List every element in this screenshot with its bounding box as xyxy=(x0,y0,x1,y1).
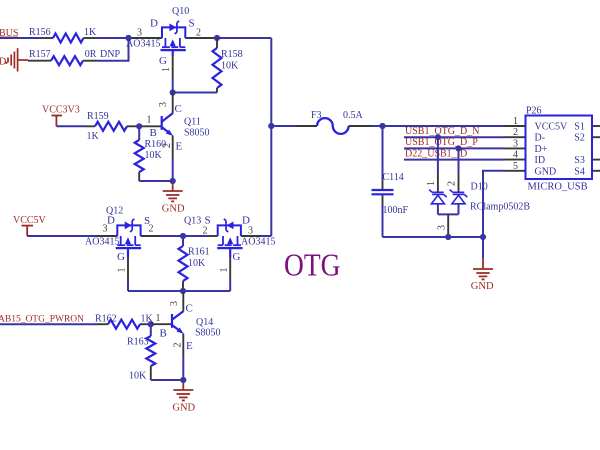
svg-text:D10: D10 xyxy=(471,182,488,193)
transistor Q11 S8050 xyxy=(142,93,210,159)
svg-text:B: B xyxy=(150,127,157,139)
wire Q13 gate down xyxy=(229,248,231,257)
junction node base/R163 xyxy=(148,321,154,327)
wire Q12 S to Q13 S xyxy=(161,235,208,237)
wire VCC5V to Q12 D xyxy=(27,235,97,237)
svg-text:S8050: S8050 xyxy=(195,328,221,339)
svg-text:R156: R156 xyxy=(29,27,51,38)
svg-text:1: 1 xyxy=(219,268,230,273)
svg-text:2: 2 xyxy=(149,224,154,235)
wire right vertical x=271 xyxy=(270,38,272,236)
fuse F3 0.5A xyxy=(271,110,371,134)
svg-text:Q11: Q11 xyxy=(184,117,201,128)
wire Q14 emitter down xyxy=(182,356,184,380)
svg-text:G: G xyxy=(117,251,125,263)
TVS diode 1 xyxy=(429,190,447,204)
svg-text:B: B xyxy=(160,328,167,340)
junction node gates/Q14 collector xyxy=(180,288,186,294)
svg-text:0.5A: 0.5A xyxy=(343,110,364,121)
wire/pin Q10 gate down xyxy=(172,50,174,56)
junction node base/R160 xyxy=(136,123,142,129)
junction node tap/rail xyxy=(445,234,451,240)
svg-text:C: C xyxy=(186,303,193,315)
connector P26 MICRO_USB xyxy=(505,106,600,193)
svg-text:3: 3 xyxy=(158,102,169,107)
pin 5 xyxy=(505,170,526,172)
svg-text:R162: R162 xyxy=(95,314,117,325)
svg-text:OTG: OTG xyxy=(284,248,341,283)
wire diode2 top xyxy=(458,148,460,172)
svg-text:AO3415: AO3415 xyxy=(241,237,275,248)
junction node emitter/GND xyxy=(180,377,186,383)
svg-text:D+: D+ xyxy=(535,144,548,155)
svg-text:MICRO_USB: MICRO_USB xyxy=(528,182,588,193)
ground port left (rotated) xyxy=(0,48,28,71)
svg-text:C114: C114 xyxy=(383,172,404,183)
svg-text:D: D xyxy=(150,18,158,30)
pin S1 xyxy=(592,125,600,127)
svg-text:GND: GND xyxy=(471,281,494,292)
resistor R160 xyxy=(135,126,166,181)
svg-text:S8050: S8050 xyxy=(184,128,210,139)
junction node C114 branch xyxy=(379,123,385,129)
pin S2 xyxy=(592,136,600,138)
svg-text:2: 2 xyxy=(447,181,458,186)
svg-text:2: 2 xyxy=(513,127,518,138)
svg-text:S3: S3 xyxy=(574,155,585,166)
svg-text:1: 1 xyxy=(161,67,172,72)
svg-text:10K: 10K xyxy=(129,371,147,382)
svg-text:GND: GND xyxy=(172,402,195,413)
svg-text:4: 4 xyxy=(513,150,518,161)
svg-text:VCC5V: VCC5V xyxy=(13,215,47,226)
body diode of Q13 xyxy=(227,222,234,230)
svg-text:DNP: DNP xyxy=(100,49,120,60)
wire F3 to P26 pin1 xyxy=(371,125,505,127)
svg-text:AB15_OTG_PWRON: AB15_OTG_PWRON xyxy=(0,314,84,324)
resistor R158 xyxy=(213,38,243,93)
svg-text:3: 3 xyxy=(169,301,180,306)
svg-text:1: 1 xyxy=(147,115,152,126)
svg-text:5: 5 xyxy=(513,161,518,172)
wire Q10 S to corner xyxy=(215,37,271,39)
connector body xyxy=(526,116,593,180)
pin 2 xyxy=(505,136,526,138)
svg-text:AO3415: AO3415 xyxy=(126,39,160,50)
svg-text:10K: 10K xyxy=(221,61,239,72)
svg-text:S2: S2 xyxy=(574,133,585,144)
svg-text:C: C xyxy=(175,103,182,115)
wire Q12 gate down xyxy=(127,248,129,257)
svg-text:1K: 1K xyxy=(87,131,100,142)
svg-text:R158: R158 xyxy=(221,49,243,60)
arrow of Q10 channel xyxy=(170,39,176,46)
wire R156 to Q10 D xyxy=(96,37,132,39)
wire bottom rail xyxy=(383,236,484,238)
junction node S/R158 xyxy=(214,35,220,41)
svg-text:USB1_OTG_D_N: USB1_OTG_D_N xyxy=(405,126,479,137)
wire label to R162 xyxy=(0,323,97,325)
wire R163 to emitter xyxy=(151,379,184,381)
svg-text:10K: 10K xyxy=(188,258,206,269)
wire row ID xyxy=(404,159,505,161)
svg-text:AO3415: AO3415 xyxy=(85,237,119,248)
wire gate rail xyxy=(128,290,230,292)
svg-text:R163: R163 xyxy=(127,337,149,348)
resistor R156 xyxy=(29,27,97,43)
svg-text:R161: R161 xyxy=(188,247,210,258)
wire row D+ xyxy=(404,147,505,149)
resistor R163 xyxy=(127,324,155,381)
svg-text:E: E xyxy=(186,340,193,352)
body diode of Q12 xyxy=(125,222,132,230)
svg-text:E: E xyxy=(176,141,183,153)
svg-text:2: 2 xyxy=(173,343,184,348)
svg-text:F3: F3 xyxy=(311,110,322,121)
resistor R162 xyxy=(95,314,154,329)
transistor Q10 AO3415 xyxy=(126,6,215,72)
wire diode1 top xyxy=(437,137,439,172)
TVS diode 2 xyxy=(450,190,468,204)
pin 4 xyxy=(505,159,526,161)
arrow of Q13 channel xyxy=(227,237,233,244)
wire emitter down xyxy=(172,158,174,181)
pin 1 xyxy=(505,125,526,127)
pin S3 xyxy=(592,159,600,161)
svg-text:S1: S1 xyxy=(574,122,585,133)
svg-text:ID: ID xyxy=(535,155,546,166)
junction node VBUS/R157 xyxy=(125,35,131,41)
wire row D- xyxy=(404,136,505,138)
wire VBUS rail xyxy=(0,37,41,39)
junction node gate/collector xyxy=(170,89,176,95)
svg-text:1: 1 xyxy=(156,313,161,324)
diode D10 RClamp0502B xyxy=(426,137,530,237)
svg-text:100nF: 100nF xyxy=(383,205,409,216)
svg-text:1: 1 xyxy=(513,116,518,127)
resistor R159 xyxy=(85,111,138,142)
resistor R161 xyxy=(179,236,210,291)
svg-text:Q14: Q14 xyxy=(196,317,213,328)
ground GND (Q14) xyxy=(172,383,195,414)
resistor R157 0R DNP xyxy=(28,49,120,65)
svg-text:RClamp0502B: RClamp0502B xyxy=(470,202,530,213)
wire Q13 D to right vertical xyxy=(261,235,271,237)
svg-text:1K: 1K xyxy=(84,27,97,38)
wire R159 to Q11 base xyxy=(138,125,142,127)
svg-text:R159: R159 xyxy=(87,111,109,122)
body diode of Q10 xyxy=(169,24,176,32)
svg-text:S: S xyxy=(189,18,195,30)
svg-text:D: D xyxy=(107,215,115,227)
wire row GND pin5 xyxy=(483,171,505,237)
svg-text:D-: D- xyxy=(535,133,546,144)
junction node emitter/GND xyxy=(170,178,176,184)
svg-text:1: 1 xyxy=(426,181,437,186)
svg-text:GND: GND xyxy=(162,203,185,214)
transistor Q14 S8050 xyxy=(152,291,221,356)
junction node at F3 branch xyxy=(268,123,274,129)
svg-text:3: 3 xyxy=(248,226,253,237)
svg-text:G: G xyxy=(233,251,241,263)
ground GND (right) xyxy=(471,237,494,292)
svg-text:3: 3 xyxy=(437,225,448,230)
svg-text:Q13: Q13 xyxy=(184,216,201,227)
transistor Q13 AO3415 xyxy=(184,215,275,264)
pin 3 tap xyxy=(447,214,449,237)
svg-text:3: 3 xyxy=(513,138,518,149)
svg-text:3: 3 xyxy=(137,28,142,39)
wire VCC3V3 to R159 xyxy=(56,125,85,127)
wire diode bracket xyxy=(438,213,459,215)
svg-text:VCC5V: VCC5V xyxy=(535,122,569,133)
wire R160 to emitter xyxy=(139,180,173,182)
junction node diode2/D+ xyxy=(455,145,461,151)
svg-text:G: G xyxy=(159,55,167,67)
svg-text:3: 3 xyxy=(103,224,108,235)
wire R162 to base xyxy=(146,323,152,325)
svg-text:R160: R160 xyxy=(145,139,167,150)
svg-text:GND: GND xyxy=(535,166,557,177)
junction node diode1/D- xyxy=(435,134,441,140)
svg-text:2: 2 xyxy=(196,28,201,39)
capacitor C114 100nF xyxy=(372,126,409,237)
svg-text:R157: R157 xyxy=(29,49,51,60)
power port VCC5V xyxy=(13,215,47,236)
pin 3 xyxy=(505,147,526,149)
svg-text:USB1_OTG_D_P: USB1_OTG_D_P xyxy=(405,137,478,148)
svg-text:D: D xyxy=(0,57,6,68)
svg-text:0R: 0R xyxy=(85,49,97,60)
svg-text:Q10: Q10 xyxy=(172,6,189,17)
net VBUS label xyxy=(0,28,18,39)
junction node rail/GND xyxy=(480,234,486,240)
junction node sources/R161 xyxy=(180,233,186,239)
svg-text:10K: 10K xyxy=(145,150,163,161)
svg-text:2: 2 xyxy=(203,226,208,237)
ground GND (Q11) xyxy=(162,184,185,215)
svg-text:VCC3V3: VCC3V3 xyxy=(42,105,80,116)
power port VCC3V3 xyxy=(42,105,80,127)
pin S4 xyxy=(592,170,600,172)
transistor Q12 AO3415 xyxy=(85,206,161,264)
arrow of Q12 channel xyxy=(125,237,131,244)
wire R157 up to VBUS node xyxy=(98,38,129,61)
wire R158 bottom to gate node xyxy=(173,92,217,94)
svg-text:S4: S4 xyxy=(574,166,585,177)
svg-text:1: 1 xyxy=(117,268,128,273)
